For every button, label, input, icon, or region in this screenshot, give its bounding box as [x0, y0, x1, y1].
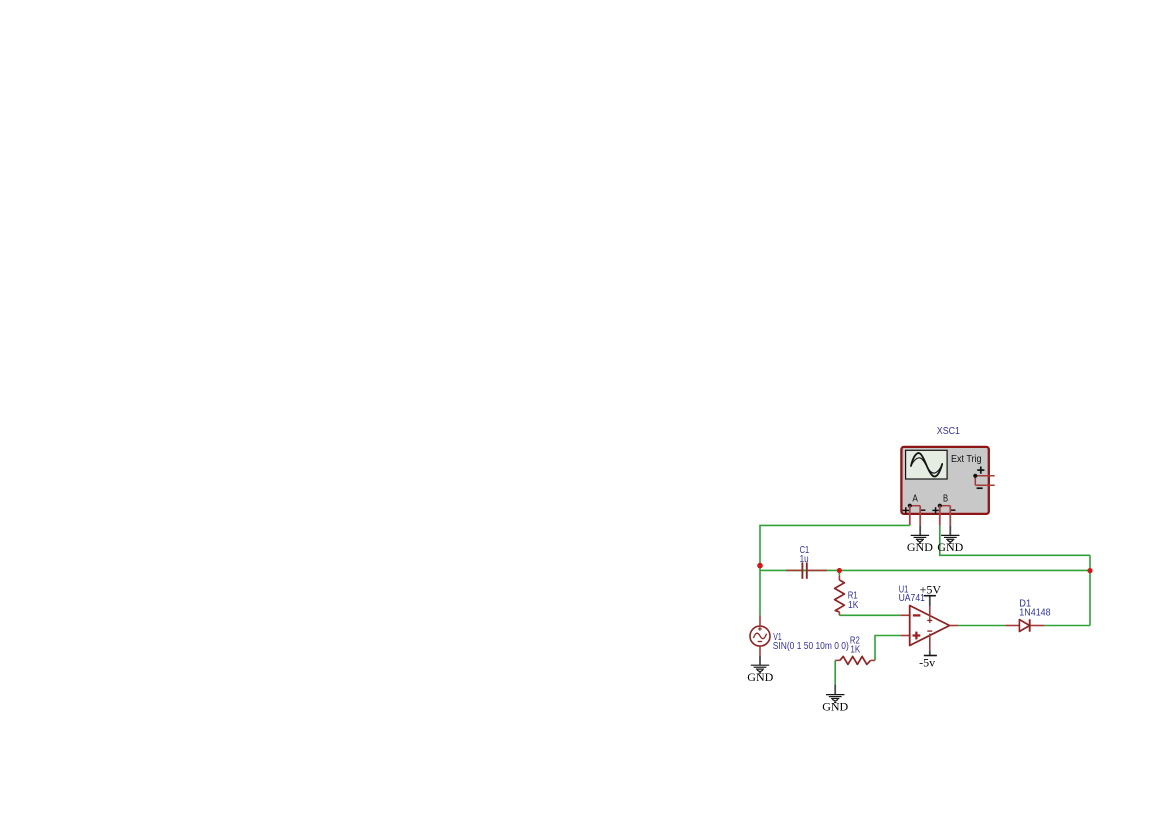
pin B minus (scope to GND): [949, 506, 951, 536]
wire op-amp plus input to R2: [875, 636, 910, 661]
svg-text:1K: 1K: [850, 644, 860, 655]
wire op-amp output to diode and corner: [950, 625, 1091, 627]
svg-text:GND: GND: [937, 540, 963, 554]
diode D1 triangle: [1019, 620, 1029, 632]
resistor R2 zigzag: [840, 656, 871, 664]
channel A minus sign: [920, 509, 925, 511]
pin A minus (scope to GND): [919, 506, 921, 536]
op-amp V- minus mark: [927, 630, 932, 632]
capacitor C1 pins: [786, 569, 827, 571]
V1 plus sign: [758, 627, 762, 631]
channel A plus sign: [903, 507, 909, 513]
pin A plus (scope to wire): [909, 506, 911, 526]
sine source V1 circle: [750, 626, 770, 646]
pin B plus (scope down): [939, 506, 941, 526]
wire node to V1: [759, 570, 761, 615]
capacitor C1 plates: [802, 562, 806, 578]
svg-text:1K: 1K: [848, 600, 859, 611]
resistor R1 bottom stub: [838, 612, 840, 615]
svg-text:SIN(0 1 50 10m 0 0): SIN(0 1 50 10m 0 0): [773, 641, 849, 652]
op-amp plus input symbol: [913, 632, 921, 640]
svg-text:GND: GND: [907, 540, 933, 554]
svg-text:GND: GND: [822, 699, 848, 713]
channel A hook: [910, 505, 920, 507]
wire R1 bottom to op-amp minus input: [839, 614, 909, 616]
Ext Trig terminal dot: [973, 474, 977, 478]
Ext Trig plus sign: [977, 467, 984, 474]
op-amp U1 triangle: [910, 606, 950, 646]
V1 minus sign: [758, 641, 762, 643]
ground GND (R2): [826, 695, 844, 703]
channel B minus sign: [950, 509, 955, 511]
junction node R1 top: [837, 568, 842, 573]
Ext Trig terminal stubs: [975, 476, 994, 486]
op-amp V+ pin: [929, 596, 931, 618]
junction node left: [757, 563, 763, 569]
junction node right: [1087, 568, 1092, 573]
oscilloscope XSC1 body: [901, 447, 988, 514]
resistor R2 left stub: [835, 659, 840, 661]
channel B terminal dot: [938, 504, 942, 508]
resistor R1 top stub: [838, 570, 840, 580]
+5V supply T-bar: [924, 595, 936, 597]
resistor R2 right stub: [871, 659, 876, 661]
svg-text:Ext Trig: Ext Trig: [951, 454, 982, 465]
Ext Trig minus sign: [977, 487, 983, 489]
V1 bottom pin: [759, 646, 761, 665]
channel A terminal dot: [908, 504, 912, 508]
R2 GND pin: [834, 685, 836, 695]
svg-text:GND: GND: [747, 670, 773, 684]
svg-text:XSC1: XSC1: [937, 426, 961, 437]
resistor R1 zigzag: [835, 580, 845, 612]
svg-text:A: A: [912, 494, 918, 505]
ground GND (channel B): [941, 535, 959, 543]
diode D1 cathode bar: [1029, 619, 1031, 631]
op-amp minus input symbol: [913, 614, 921, 616]
svg-text:1u: 1u: [800, 554, 809, 565]
wire R2 to GND: [834, 660, 836, 684]
channel B hook: [940, 505, 951, 507]
ground GND (V1): [751, 665, 769, 673]
op-amp V- pin: [929, 634, 931, 656]
oscilloscope screen icon: [906, 450, 948, 479]
ground GND (channel A): [911, 535, 929, 543]
svg-text:UA741: UA741: [899, 593, 926, 604]
wire scope A to top-left corner: [760, 525, 910, 570]
-5v supply T-bar: [924, 655, 937, 657]
wire right vertical (feedback corner): [1089, 555, 1091, 625]
svg-text:1N4148: 1N4148: [1019, 608, 1051, 619]
svg-text:-5v: -5v: [919, 656, 935, 670]
wire scope B down and right: [940, 526, 1090, 556]
svg-text:B: B: [943, 494, 948, 505]
channel B plus sign: [932, 507, 938, 513]
op-amp V+ plus mark: [927, 618, 932, 623]
wire main horizontal through C1: [760, 569, 1090, 571]
V1 top pin: [759, 616, 761, 627]
